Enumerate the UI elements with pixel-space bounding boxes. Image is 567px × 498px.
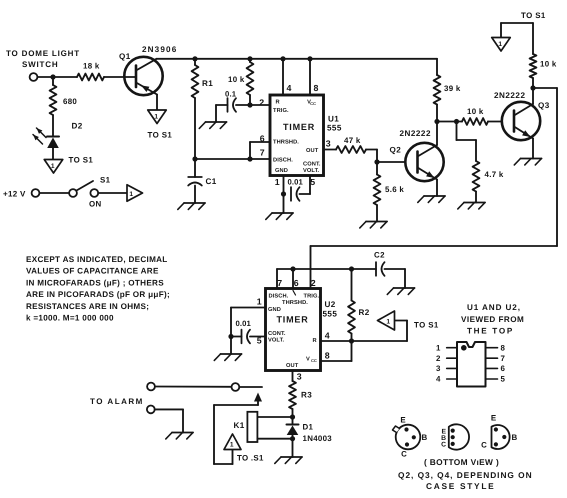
svg-text:TO S1: TO S1 [69,156,94,165]
wire D1 to ground [292,439,294,457]
wire +12V to switch [39,192,69,194]
junction 10k/pin2 line [247,102,252,107]
wire Q3 collector up [532,88,534,104]
svg-text:2: 2 [436,354,441,363]
resistor 18k [77,74,104,81]
node 1 flag TO S1 (U2 reset) [378,311,395,330]
svg-text:C1: C1 [206,177,217,186]
svg-text:47 k: 47 k [344,136,361,145]
junction pin6/pin7 [247,156,252,161]
capacitor C2 [375,262,377,276]
svg-text:3: 3 [297,372,302,382]
ground (D1/K1) [281,456,302,458]
capacitor 0.01 (U2 control) [241,330,243,344]
svg-text:CC: CC [311,358,317,363]
svg-text:1: 1 [257,297,262,307]
wire 0.1 cap left to ground stem [216,104,228,106]
svg-text:U1 AND U2,: U1 AND U2, [467,303,521,312]
svg-text:U1: U1 [328,115,339,124]
svg-text:R: R [312,338,316,344]
svg-text:2N2222: 2N2222 [400,129,431,138]
svg-text:10 k: 10 k [228,75,245,84]
wire input to 18k [37,76,77,78]
wire 680 to D2 [52,115,54,137]
wire switch to node 1 flag [98,192,127,194]
svg-text:Q1: Q1 [119,52,131,61]
wire 0.1 cap to pin 2 [236,104,270,106]
pin 8 wire U1 [309,59,311,95]
svg-text:Q3: Q3 [538,101,550,110]
resistor 10k (top right) [532,23,534,54]
wire node to Q2 base [377,161,406,163]
junction R3/K1/D1 [290,414,295,419]
LED light arrows [33,135,43,145]
svg-text:1: 1 [51,163,55,170]
wire 5.6k to ground [376,205,378,222]
svg-text:5: 5 [310,177,315,187]
svg-text:THE TOP: THE TOP [467,327,514,336]
wire 18k to Q1 base [104,76,125,78]
junction 39k/Q2 collector [434,119,439,124]
svg-text:OUT: OUT [306,148,319,154]
wire 0.01 to pin 5 U2 [231,336,242,338]
svg-text:THRSHD.: THRSHD. [282,300,308,306]
svg-text:C: C [481,441,487,450]
svg-text:3: 3 [436,364,441,373]
resistor R1 [194,59,196,65]
wire 4.7k to ground [475,192,477,203]
svg-text:V: V [306,357,310,363]
svg-text:E: E [400,416,405,425]
svg-text:555: 555 [327,124,342,133]
wire bus to C2 [352,268,377,270]
resistor 4.7k [473,161,480,192]
wire pin7 node to C1 [194,159,196,177]
node 1 flag TO S1 (armature) [224,434,241,450]
svg-text:680: 680 [63,97,77,106]
svg-text:7: 7 [501,354,506,363]
svg-text:RESISTANCES ARE IN OHMS;: RESISTANCES ARE IN OHMS; [26,302,149,311]
transistor Q1 2N3906 [124,57,162,95]
resistor 39k [434,75,441,105]
transistor Q2 2N2222 [405,143,443,181]
wire R1 to pin7 node [194,98,196,159]
svg-text:2: 2 [259,98,264,108]
wire rail down to 39k [436,59,438,75]
svg-text:Q2, Q3, Q4, DEPENDING ON: Q2, Q3, Q4, DEPENDING ON [398,470,533,480]
pin 1 wire U2 [231,307,266,309]
svg-text:TIMER: TIMER [277,315,309,325]
TO-92 right pins [494,427,498,431]
op-amp U1 555 timer box [270,95,324,176]
pin 6 wire U2 [292,269,294,289]
svg-text:DISCH.: DISCH. [273,158,293,164]
ground (Q2) [424,195,445,197]
svg-text:VOLT.: VOLT. [303,168,320,174]
svg-text:4.7 k: 4.7 k [485,170,504,179]
LED D2 [47,136,59,138]
wire alarm contact fixed [155,386,232,388]
svg-text:C: C [441,442,446,449]
svg-text:5.6 k: 5.6 k [385,185,404,194]
wire junction down to 4.7k [456,122,458,141]
ground (U1 pin1) [272,212,293,214]
junction D1 anode/K1 [290,436,295,441]
resistor 10k (Q3 base) [457,121,463,123]
resistor 680 [50,85,57,115]
wire Q3 emitter to ground [532,139,534,159]
switch S1 throw [90,189,98,197]
svg-text:R1: R1 [202,79,213,88]
terminal contact [232,383,240,391]
svg-text:0.1: 0.1 [225,90,237,99]
resistor 5.6k [376,162,378,175]
pin 1 index dot [461,345,467,351]
svg-text:k =1000. M=1 000 000: k =1000. M=1 000 000 [26,314,114,323]
wire K1 top to R3 node [257,416,292,418]
svg-text:39 k: 39 k [444,84,461,93]
ground (alarm return) [172,432,193,434]
svg-text:D1: D1 [303,423,314,432]
switch S1 blade [77,181,94,191]
junction rail/10k [247,56,252,61]
wire 0.01 to pin 5 [300,193,311,195]
svg-text:1: 1 [436,343,441,352]
svg-text:5: 5 [257,336,262,346]
wire 47k to Q2 base node [366,149,377,151]
svg-text:K1: K1 [234,421,245,430]
svg-text:6: 6 [501,364,506,373]
wire pins 7-6 tie bus [277,268,352,270]
svg-text:5: 5 [501,375,506,384]
terminal +12V [32,189,40,197]
node 1 flag TO S1 (under D2) [44,160,63,174]
svg-text:VIEWED FROM: VIEWED FROM [461,315,524,324]
pin 4 wire U1 [282,59,284,95]
svg-text:1: 1 [154,114,158,121]
wire armature to TO S1 flag [214,404,258,406]
relay K1 coil [247,412,257,442]
svg-text:VALUES OF CAPACITANCE ARE: VALUES OF CAPACITANCE ARE [26,267,159,276]
svg-text:10 k: 10 k [540,60,557,69]
svg-text:1N4003: 1N4003 [303,434,333,443]
pin 4 wire U2 [321,340,408,342]
junction pin6 bus [290,266,295,271]
junction rail/pin8 [307,56,312,61]
svg-text:2N3906: 2N3906 [142,45,177,54]
svg-text:B: B [422,433,428,442]
svg-text:TRIG.: TRIG. [273,108,289,114]
svg-text:TO DOME LIGHT: TO DOME LIGHT [6,49,80,58]
resistor 10k (trigger pull-up) [249,59,251,62]
svg-text:TO ALARM: TO ALARM [90,397,144,406]
DIP left pins 1-4 [447,347,457,349]
junction pin1/0.01 [281,191,286,196]
svg-text:6: 6 [294,278,299,288]
wire long feedback right edge [533,87,557,89]
wire D2 to node 1 [52,148,54,160]
svg-text:TIMER: TIMER [283,122,315,132]
relay armature arrow [254,393,262,402]
wire Q1 emitter down [156,95,158,111]
diode D1 1N4003 [292,417,294,425]
node 1 flag TO S1 (top right) [492,38,511,52]
terminal alarm top [147,383,155,391]
svg-text:E: E [491,414,496,423]
transistor case TO-92 middle (bottom view) [449,424,469,449]
wire contact stub [239,386,262,388]
node 1 flag (from S1) [127,185,143,202]
svg-text:CONT.: CONT. [268,331,286,337]
ground (C1) [184,202,205,204]
svg-text:R: R [275,100,279,106]
svg-text:10 k: 10 k [467,107,484,116]
junction Q2 base/5.6k [374,159,379,164]
node 1 flag TO S1 (Q1 emitter) [148,110,167,124]
switch S1 pole [69,189,77,197]
svg-text:1: 1 [129,191,133,198]
terminal dome-light input [30,73,38,81]
wire 10k to pin2 line [249,95,251,105]
wire junction to 680 [52,77,54,85]
pin 7 wire U1 [195,158,270,160]
svg-text:1: 1 [498,41,502,48]
transistor case TO-18 (bottom view) [396,425,421,450]
svg-text:0.01: 0.01 [288,178,304,187]
pin 7 wire U2 [276,269,278,289]
svg-text:6: 6 [260,134,265,144]
wire K1 bottom to D1 anode [257,438,292,440]
wire C1 to ground [194,186,196,204]
svg-text:ARE IN PICOFARADS (pF OR μμF);: ARE IN PICOFARADS (pF OR μμF); [26,290,170,299]
TO-18 tab [393,426,400,433]
svg-text:TO .S1: TO .S1 [237,454,264,463]
pin 1 wire U1 to ground [283,176,285,214]
ground (U2 pin1) [221,353,242,355]
svg-text:THRSHD.: THRSHD. [273,140,299,146]
ground (0.1 cap) [206,121,227,123]
capacitor 0.01 (U1 control) [290,187,292,201]
wire Q2 collector up [436,122,438,146]
svg-text:0.01: 0.01 [236,319,252,328]
junction rail/pin4 [280,56,285,61]
svg-text:8: 8 [501,343,506,352]
wire alarm bottom to ground [155,408,183,410]
svg-text:R3: R3 [301,391,312,400]
pin 3 wire U1 out [324,149,337,151]
resistor R3 [289,381,296,409]
svg-text:CONT.: CONT. [303,162,321,168]
svg-text:TRIG.: TRIG. [304,294,320,300]
TO-18 pins E B C [404,427,408,431]
pin 6 wire U1 [250,141,270,143]
svg-text:GND: GND [268,307,281,313]
wire 10k to Q3 base [488,121,502,123]
junction Q3 base network [454,119,459,124]
ground (C2) [394,287,415,289]
pin 8 wire U2 [321,360,352,362]
svg-text:CASE STYLE: CASE STYLE [426,481,495,491]
svg-text:Q2: Q2 [390,146,402,155]
svg-text:ON: ON [89,200,102,209]
op-amp U2 555 timer box [266,289,321,371]
junction 0.01 left [228,334,233,339]
svg-text:1: 1 [275,177,280,187]
junction Q3 collector/10k [530,85,535,90]
wire Q2 emitter to ground [436,180,438,197]
svg-text:1: 1 [386,318,390,325]
wire 39k to Q2 collector node [436,105,438,122]
svg-text:4: 4 [436,375,441,384]
terminal alarm bottom [147,406,155,414]
svg-text:2: 2 [311,278,316,288]
ground (5.6k) [366,221,387,223]
wire C2 right to ground [385,268,406,270]
svg-text:555: 555 [323,310,338,319]
svg-text:TO S1: TO S1 [148,131,173,140]
wire pin4 to flag [406,321,408,342]
capacitor 0.1 (trigger) [227,98,229,112]
svg-text:CC: CC [310,101,316,106]
wire to Q3 base network [437,121,457,123]
svg-text:8: 8 [325,351,330,361]
svg-text:SWITCH: SWITCH [22,60,58,69]
DIP right pins 8-5 [486,347,498,349]
svg-text:7: 7 [260,148,265,158]
svg-text:OUT: OUT [286,363,299,369]
svg-text:7: 7 [277,278,282,288]
svg-text:IN MICROFARADS (μF) ; OTHERS: IN MICROFARADS (μF) ; OTHERS [26,278,164,287]
svg-text:4: 4 [325,331,330,341]
wire top-right flag run [501,22,533,24]
transistor Q3 2N2222 [502,102,540,140]
junction R2 top / C2 bus [349,266,354,271]
svg-text:8: 8 [314,83,319,93]
svg-text:3: 3 [326,139,331,149]
wire collector rail [157,58,438,60]
pin 3 wire U2 out [292,371,294,382]
capacitor C1 [188,176,202,178]
svg-text:1: 1 [230,441,234,448]
svg-text:D2: D2 [72,122,83,131]
svg-text:VOLT.: VOLT. [268,338,285,344]
resistor R2 [351,269,353,301]
svg-text:4: 4 [287,83,292,93]
svg-text:( BOTTOM VıEW ): ( BOTTOM VıEW ) [424,457,499,467]
junction rail/R1 [192,56,197,61]
junction R1/pin7/C1 [192,156,197,161]
node junction 680/input [50,74,55,79]
svg-text:GND: GND [275,168,288,174]
svg-text:C: C [401,450,407,459]
svg-text:EXCEPT AS INDICATED, DECIMAL: EXCEPT AS INDICATED, DECIMAL [26,255,168,264]
transistor case TO-92 right (bottom view) [492,425,510,449]
svg-text:U2: U2 [325,300,336,309]
TO-92 middle pins [451,429,455,433]
svg-text:DISCH.: DISCH. [269,294,289,300]
svg-text:R2: R2 [359,308,370,317]
svg-text:TO S1: TO S1 [521,11,546,20]
ground (4.7k) [464,202,485,204]
svg-text:C2: C2 [374,251,385,260]
svg-text:2N2222: 2N2222 [494,91,525,100]
svg-text:B: B [512,433,518,442]
svg-text:TO S1: TO S1 [414,321,439,330]
svg-text:S1: S1 [100,176,111,185]
junction R2/pin4 [349,338,354,343]
ground (Q3) [521,158,542,160]
IC DIP-8 package outline [457,342,486,387]
resistor 47k [336,146,366,153]
svg-text:18 k: 18 k [83,62,100,71]
svg-text:+12 V: +12 V [3,190,26,199]
